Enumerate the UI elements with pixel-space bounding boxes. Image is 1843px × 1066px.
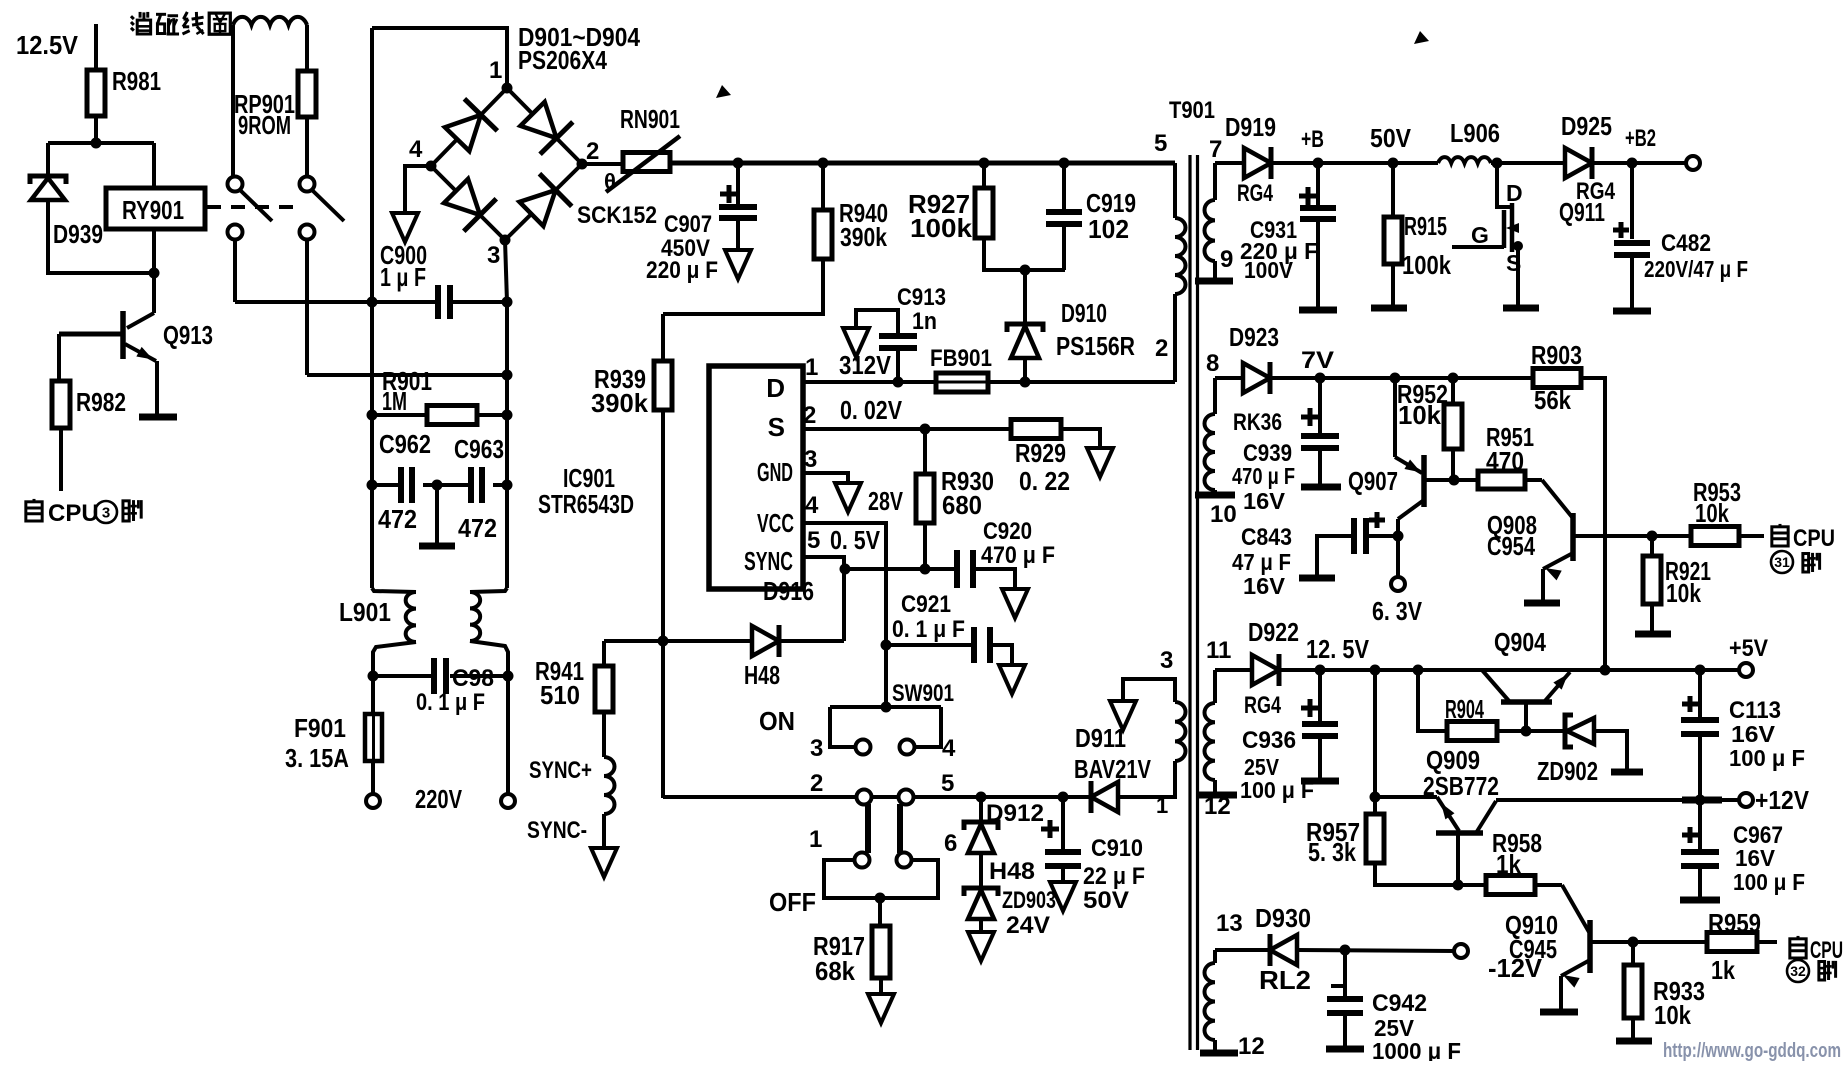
- svg-text:1: 1: [489, 57, 502, 84]
- svg-text:L906: L906: [1450, 118, 1500, 148]
- svg-text:G: G: [1471, 222, 1489, 248]
- svg-text:1: 1: [1156, 793, 1168, 818]
- svg-text:D912: D912: [986, 800, 1044, 827]
- svg-text:12.5V: 12.5V: [16, 30, 79, 60]
- svg-text:ZD903: ZD903: [1002, 887, 1056, 914]
- svg-text:D925: D925: [1561, 111, 1612, 141]
- svg-text:12. 5V: 12. 5V: [1306, 634, 1370, 664]
- svg-text:R903: R903: [1531, 340, 1582, 370]
- svg-text:C98: C98: [452, 665, 494, 692]
- svg-text:C843: C843: [1241, 524, 1292, 551]
- svg-text:D910: D910: [1061, 298, 1107, 328]
- svg-text:7V: 7V: [1301, 347, 1334, 374]
- svg-text:R981: R981: [112, 66, 161, 96]
- svg-text:+B2: +B2: [1625, 125, 1656, 152]
- svg-text:472: 472: [458, 513, 497, 543]
- svg-text:C945: C945: [1509, 934, 1557, 964]
- svg-text:C913: C913: [897, 284, 946, 311]
- svg-text:SYNC+: SYNC+: [529, 757, 592, 784]
- svg-text:100 μ F: 100 μ F: [1240, 777, 1314, 803]
- svg-text:Q907: Q907: [1348, 466, 1398, 496]
- svg-text:1n: 1n: [912, 308, 937, 335]
- svg-text:50V: 50V: [1083, 887, 1129, 914]
- svg-text:3: 3: [1160, 647, 1173, 674]
- svg-text:5: 5: [807, 527, 820, 554]
- svg-text:9: 9: [1220, 246, 1233, 273]
- svg-text:220V/47 μ F: 220V/47 μ F: [1644, 256, 1748, 282]
- svg-text:472: 472: [378, 504, 417, 534]
- svg-text:4: 4: [942, 735, 956, 762]
- svg-text:3. 15A: 3. 15A: [285, 743, 349, 773]
- svg-text:C907: C907: [664, 211, 712, 238]
- svg-text:1 μ F: 1 μ F: [380, 262, 426, 292]
- svg-text:12: 12: [1238, 1033, 1265, 1060]
- svg-text:D922: D922: [1248, 617, 1299, 647]
- svg-text:5. 3k: 5. 3k: [1308, 837, 1356, 867]
- svg-text:100V: 100V: [1244, 257, 1294, 283]
- svg-text:F901: F901: [294, 713, 346, 743]
- svg-text:2: 2: [586, 138, 599, 165]
- svg-text:2: 2: [803, 402, 816, 429]
- svg-text:3: 3: [487, 242, 500, 269]
- svg-text:10k: 10k: [1654, 1000, 1691, 1030]
- svg-text:3: 3: [810, 735, 823, 762]
- svg-text:4: 4: [409, 136, 423, 163]
- svg-text:100k: 100k: [910, 213, 973, 243]
- svg-text:D911: D911: [1075, 723, 1126, 753]
- svg-text:0. 02V: 0. 02V: [840, 395, 903, 425]
- svg-text:1: 1: [809, 826, 822, 853]
- svg-text:RG4: RG4: [1237, 180, 1273, 207]
- svg-text:10k: 10k: [1695, 498, 1729, 528]
- svg-text:1M: 1M: [382, 386, 407, 416]
- svg-text:RK36: RK36: [1233, 409, 1282, 436]
- svg-text:RG4: RG4: [1244, 692, 1281, 719]
- svg-text:16V: 16V: [1243, 488, 1286, 514]
- svg-text:R904: R904: [1445, 694, 1484, 724]
- svg-text:28V: 28V: [868, 486, 903, 516]
- svg-text:SYNC-: SYNC-: [527, 817, 587, 844]
- svg-text:12: 12: [1204, 793, 1231, 820]
- svg-text:C954: C954: [1487, 531, 1535, 561]
- svg-text:680: 680: [942, 490, 982, 520]
- svg-text:4: 4: [805, 492, 819, 519]
- svg-text:D939: D939: [53, 219, 103, 249]
- svg-text:SCK152: SCK152: [577, 202, 657, 229]
- svg-text:+B: +B: [1301, 126, 1324, 153]
- svg-text:FB901: FB901: [930, 345, 992, 372]
- svg-text:D923: D923: [1229, 322, 1279, 352]
- svg-text:Q913: Q913: [163, 320, 213, 350]
- svg-text:3: 3: [102, 504, 110, 521]
- svg-text:http://www.go-gddq.com: http://www.go-gddq.com: [1663, 1040, 1841, 1061]
- svg-text:50V: 50V: [1370, 123, 1412, 153]
- svg-text:16V: 16V: [1243, 573, 1286, 599]
- svg-text:GND: GND: [757, 457, 793, 487]
- svg-text:1k: 1k: [1711, 955, 1735, 985]
- svg-text:CPU: CPU: [48, 500, 99, 527]
- svg-text:7: 7: [1209, 136, 1222, 163]
- svg-text:+12V: +12V: [1755, 785, 1810, 815]
- svg-text:100 μ F: 100 μ F: [1729, 745, 1805, 771]
- svg-text:2: 2: [1155, 335, 1168, 362]
- svg-text:D919: D919: [1225, 112, 1276, 142]
- svg-text:CPU: CPU: [1810, 937, 1843, 964]
- svg-text:SW901: SW901: [892, 680, 954, 707]
- svg-text:470 μ F: 470 μ F: [1232, 463, 1295, 489]
- svg-text:312V: 312V: [839, 350, 892, 380]
- svg-text:16V: 16V: [1731, 721, 1776, 747]
- svg-text:OFF: OFF: [769, 887, 816, 917]
- svg-text:22 μ F: 22 μ F: [1083, 863, 1145, 890]
- svg-text:1: 1: [805, 354, 818, 381]
- svg-text:0. 1 μ F: 0. 1 μ F: [892, 616, 965, 643]
- svg-text:CPU: CPU: [1793, 525, 1835, 552]
- svg-text:0. 22: 0. 22: [1019, 466, 1070, 496]
- svg-text:PS206X4: PS206X4: [518, 45, 607, 75]
- svg-text:470: 470: [1486, 446, 1524, 476]
- svg-text:1k: 1k: [1496, 849, 1521, 879]
- svg-text:R929: R929: [1015, 438, 1066, 468]
- svg-text:47 μ F: 47 μ F: [1232, 549, 1291, 575]
- svg-text:102: 102: [1088, 214, 1129, 244]
- svg-text:8: 8: [1206, 350, 1219, 377]
- svg-text:C920: C920: [983, 518, 1032, 545]
- svg-text:2: 2: [810, 770, 823, 797]
- svg-text:470 μ F: 470 μ F: [981, 542, 1055, 569]
- svg-text:D: D: [1506, 180, 1523, 206]
- svg-text:10k: 10k: [1666, 578, 1701, 608]
- svg-text:C113: C113: [1729, 697, 1781, 724]
- svg-text:R959: R959: [1708, 908, 1761, 938]
- svg-text:100 μ F: 100 μ F: [1733, 869, 1805, 895]
- svg-text:T901: T901: [1169, 97, 1215, 124]
- svg-text:0. 5V: 0. 5V: [830, 525, 881, 555]
- svg-text:R915: R915: [1404, 211, 1447, 241]
- svg-text:H48: H48: [989, 858, 1035, 885]
- svg-text:5: 5: [941, 770, 954, 797]
- svg-text:220V: 220V: [415, 784, 462, 814]
- svg-text:BAV21V: BAV21V: [1074, 754, 1152, 784]
- svg-text:H48: H48: [744, 660, 780, 690]
- svg-text:STR6543D: STR6543D: [538, 489, 634, 519]
- svg-text:10: 10: [1210, 501, 1237, 528]
- svg-text:5: 5: [1154, 130, 1167, 157]
- svg-text:6. 3V: 6. 3V: [1372, 596, 1423, 626]
- svg-text:1000 μ F: 1000 μ F: [1372, 1038, 1461, 1061]
- svg-text:RN901: RN901: [620, 104, 680, 134]
- svg-text:390k: 390k: [591, 388, 649, 418]
- svg-text:SYNC: SYNC: [744, 546, 793, 576]
- svg-text:100k: 100k: [1402, 250, 1451, 280]
- svg-text:0. 1 μ F: 0. 1 μ F: [416, 689, 485, 716]
- svg-text:C962: C962: [379, 429, 431, 459]
- svg-text:C936: C936: [1242, 727, 1296, 754]
- svg-text:24V: 24V: [1006, 912, 1050, 939]
- svg-text:6: 6: [944, 830, 957, 857]
- svg-text:θ: θ: [604, 169, 616, 194]
- svg-text:RG4: RG4: [1576, 178, 1616, 205]
- svg-text:S: S: [768, 412, 785, 442]
- svg-text:ON: ON: [759, 706, 795, 736]
- svg-text:PS156R: PS156R: [1056, 331, 1135, 361]
- svg-text:C963: C963: [454, 434, 504, 464]
- svg-text:R982: R982: [76, 387, 126, 417]
- svg-text:C921: C921: [901, 591, 951, 618]
- svg-text:13: 13: [1216, 910, 1243, 937]
- svg-text:16V: 16V: [1735, 845, 1776, 871]
- svg-text:3: 3: [804, 446, 817, 473]
- svg-text:Q904: Q904: [1494, 627, 1546, 657]
- svg-text:220 μ F: 220 μ F: [646, 257, 718, 284]
- svg-text:10k: 10k: [1398, 400, 1442, 430]
- svg-text:11: 11: [1206, 637, 1231, 664]
- svg-text:D: D: [766, 373, 785, 403]
- svg-text:C910: C910: [1091, 835, 1143, 862]
- svg-text:RL2: RL2: [1259, 965, 1311, 995]
- svg-text:S: S: [1506, 250, 1521, 276]
- svg-text:L901: L901: [339, 597, 391, 627]
- svg-text:C482: C482: [1661, 230, 1711, 257]
- svg-text:ZD902: ZD902: [1537, 756, 1598, 786]
- svg-text:VCC: VCC: [757, 508, 794, 538]
- svg-text:D916: D916: [763, 576, 814, 606]
- svg-text:+5V: +5V: [1729, 635, 1768, 662]
- svg-text:510: 510: [540, 680, 580, 710]
- svg-text:RY901: RY901: [122, 195, 184, 225]
- svg-text:D930: D930: [1255, 903, 1311, 933]
- svg-text:9ROM: 9ROM: [238, 110, 291, 140]
- svg-text:390k: 390k: [840, 222, 887, 252]
- svg-text:31: 31: [1774, 554, 1790, 570]
- svg-text:2SB772: 2SB772: [1423, 771, 1499, 801]
- svg-text:32: 32: [1790, 963, 1806, 979]
- svg-text:C942: C942: [1372, 990, 1427, 1017]
- svg-text:56k: 56k: [1534, 385, 1571, 415]
- svg-text:68k: 68k: [815, 956, 855, 986]
